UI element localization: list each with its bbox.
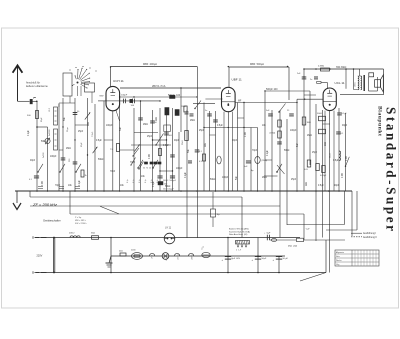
switch k1 (37, 171, 38, 172)
svg-text:Wechs.: Wechs. (336, 260, 342, 262)
resistor r6 (322, 166, 326, 173)
svg-text:50kΩ: 50kΩ (165, 186, 171, 188)
svg-text:Netz-Anschluss (Gl): Netz-Anschluss (Gl) (229, 233, 248, 236)
svg-text:25pF: 25pF (199, 130, 205, 132)
wire bus D (265, 90, 310, 92)
divider resistor (236, 241, 250, 245)
capacitor pad x75 (73, 112, 78, 114)
switch mid1 (137, 167, 138, 168)
capacitor el left (34, 175, 39, 177)
sub bus L1 (30, 196, 242, 198)
switch k3 (75, 171, 76, 172)
resistor mid2 (159, 149, 162, 156)
svg-text:0.1µF: 0.1µF (28, 130, 30, 136)
wire stub 176 (264, 175, 278, 177)
svg-text:220V: 220V (37, 255, 43, 258)
svg-text:30kΩ: 30kΩ (182, 140, 184, 145)
coil L2 (54, 129, 58, 150)
capacitor mid6 (157, 175, 162, 177)
svg-text:5nF: 5nF (236, 175, 238, 180)
svg-text:20pF: 20pF (41, 117, 43, 122)
svg-text:30pF: 30pF (232, 140, 238, 142)
svg-text:70pF: 70pF (55, 185, 61, 187)
svg-text:25pF: 25pF (312, 152, 318, 154)
terminal dashes left (38, 186, 43, 188)
svg-text:60kΩ: 60kΩ (330, 153, 332, 158)
wire stair a (287, 224, 345, 226)
resistor r3 (319, 129, 326, 134)
sub bus L3 (70, 213, 304, 215)
padder cap row (144, 162, 147, 164)
electrolytic 3 (276, 256, 282, 258)
electrolytic 1 (225, 256, 231, 258)
capacitor mid2 (164, 132, 169, 134)
svg-text:500pF 500µµF: 500pF 500µµF (163, 180, 177, 182)
wire top bus A1 (111, 66, 198, 68)
resistor r5 (316, 164, 320, 171)
speaker magnet (369, 73, 374, 77)
svg-text:100pF: 100pF (50, 156, 57, 158)
svg-text:1kΩ: 1kΩ (205, 143, 207, 147)
svg-text:Standard-Super: Standard-Super (384, 107, 399, 234)
heater line (111, 255, 285, 257)
capacitor m2d (268, 113, 273, 115)
svg-text:2MΩ: 2MΩ (66, 148, 71, 150)
switch k2 (59, 171, 60, 172)
svg-text:30 70 24 50: 30 70 24 50 (143, 168, 154, 170)
svg-text:2n: 2n (310, 79, 312, 81)
capacitor mid4 (170, 154, 175, 156)
pilot lamp (162, 253, 169, 260)
ground bus junctions (36, 190, 38, 192)
svg-text:MBF 500µA: MBF 500µA (250, 63, 264, 66)
svg-text:+ 5µF: + 5µF (264, 233, 271, 235)
electrolytic mid 8uF (211, 209, 216, 217)
svg-text:30pF: 30pF (174, 140, 180, 142)
svg-text:MW = 982 k: MW = 982 k (75, 220, 86, 222)
svg-text:KW = 2280 k: KW = 2280 k (75, 223, 87, 225)
svg-text:100pF: 100pF (121, 95, 128, 97)
svg-text:2MΩ: 2MΩ (143, 124, 148, 126)
power line top (35, 237, 300, 239)
resistor chain b (278, 131, 282, 138)
svg-text:0.3M: 0.3M (245, 132, 247, 137)
svg-text:50kΩ: 50kΩ (284, 150, 290, 152)
capacitor mid5 (195, 149, 200, 151)
heater hump 2 (175, 253, 180, 256)
dial lamp (164, 233, 175, 244)
wire UCL top bus (304, 68, 384, 70)
svg-text:1MΩ: 1MΩ (307, 122, 312, 124)
wire diag switch (277, 165, 285, 174)
speaker driver (375, 80, 381, 88)
svg-text:P = Sp.: P = Sp. (75, 217, 82, 219)
wire bus C (120, 96, 198, 98)
wire top bus A2 (229, 66, 289, 68)
wire UBF pin a (223, 112, 225, 191)
wire heater drop (110, 238, 112, 273)
svg-text:Ausführung I: Ausführung I (363, 232, 376, 235)
switch right (276, 171, 277, 172)
rotary wave-change switch (77, 82, 79, 84)
resistor r0 (321, 68, 330, 71)
wire bus 103 (59, 102, 75, 104)
svg-text:0.5µF: 0.5µF (318, 185, 324, 187)
wire stair b (326, 229, 357, 231)
svg-text:1kΩ: 1kΩ (156, 117, 158, 121)
svg-text:UCL 11: UCL 11 (335, 81, 345, 85)
svg-text:100pF: 100pF (222, 177, 229, 179)
svg-text:100pF: 100pF (290, 130, 297, 132)
IF transformer windings (165, 108, 169, 116)
capacitor m2c (246, 160, 251, 162)
padder block (158, 182, 163, 185)
svg-text:1kΩ: 1kΩ (88, 122, 90, 126)
svg-text:25pF: 25pF (81, 142, 83, 147)
svg-text:5nF: 5nF (120, 126, 122, 131)
tube UCH11 (106, 86, 120, 110)
svg-text:0.3MΩ: 0.3MΩ (318, 66, 324, 68)
svg-text:1kΩ: 1kΩ (306, 182, 308, 186)
wire horiz 127 mid (204, 127, 258, 129)
wire speaker right (383, 69, 385, 95)
legend line 2 (351, 236, 362, 238)
antenna (17, 66, 19, 101)
svg-text:5nF: 5nF (188, 148, 190, 153)
svg-text:100Ω: 100Ω (355, 82, 357, 87)
svg-text:0.5µF: 0.5µF (217, 125, 223, 127)
heater hump 3 (189, 253, 194, 256)
svg-text:0.3M: 0.3M (346, 156, 348, 161)
wire osc drop (288, 67, 290, 100)
svg-text:Ap.: Ap. (251, 169, 254, 172)
svg-text:Sammler Batt.2V (Gl.A): Sammler Batt.2V (Gl.A) (229, 230, 250, 233)
heater hump 1 (150, 253, 155, 256)
rotary switch ticks (70, 70, 71, 71)
capacitor mid3 (138, 117, 143, 119)
capacitor 100pF a (123, 99, 125, 104)
svg-text:2BV=1.7mA: 2BV=1.7mA (152, 85, 166, 88)
svg-text:50kΩ: 50kΩ (210, 179, 216, 181)
series cap power (266, 235, 268, 241)
grid stopper box UCL (317, 81, 321, 83)
wire UCH pin diag (116, 111, 120, 122)
fuse (202, 252, 210, 257)
svg-text:50 µF: 50 µF (283, 258, 289, 260)
ground bus (15, 190, 352, 192)
svg-text:2x2000: 2x2000 (49, 129, 51, 136)
oval comp (217, 156, 221, 164)
wire IF h2 (131, 144, 171, 146)
svg-text:70pF: 70pF (252, 150, 258, 152)
switch det sect (278, 111, 279, 112)
svg-text:UBF11: UBF11 (192, 255, 194, 260)
svg-text:4kΩ: 4kΩ (119, 251, 123, 253)
svg-text:04/12: 04/12 (69, 233, 75, 235)
svg-text:30pF: 30pF (342, 125, 348, 127)
svg-text:25pF: 25pF (147, 136, 153, 138)
svg-text:(1MΩ): (1MΩ) (270, 133, 276, 135)
wire UBF in (205, 98, 222, 100)
ground symbol main (16, 191, 18, 203)
svg-text:30pF: 30pF (30, 160, 36, 162)
resistor power in (92, 236, 99, 240)
speaker frame (368, 77, 370, 91)
IF box small (164, 125, 171, 132)
power terminal bottom (32, 271, 34, 274)
wire UCL pin b (333, 111, 335, 191)
svg-text:UCL11: UCL11 (166, 256, 168, 261)
svg-text:Geräteschalter: Geräteschalter (43, 219, 61, 223)
svg-text:100pF: 100pF (176, 168, 183, 170)
svg-text:Netz: Netz (336, 255, 340, 258)
svg-text:100pF: 100pF (106, 125, 113, 127)
svg-text:0.1µF: 0.1µF (79, 180, 81, 186)
switch IF diag (156, 134, 164, 146)
junction dots m2 (228, 127, 229, 128)
resistor chain a (278, 120, 282, 127)
capacitor mid1 (150, 120, 155, 122)
capacitor m2b (213, 119, 218, 121)
tube UCL11 (323, 88, 336, 111)
switch diag a (133, 148, 139, 156)
svg-text:5nF: 5nF (297, 142, 299, 147)
output socket (271, 238, 276, 241)
barretter (132, 253, 143, 260)
electrolytic 2 (255, 256, 261, 258)
switch osc sect (194, 108, 195, 109)
speaker cone (381, 75, 384, 92)
choke power (70, 236, 80, 238)
capacitor x63 (61, 157, 66, 159)
svg-text:50µF: 50µF (262, 258, 268, 260)
svg-text:0.1µF: 0.1µF (267, 150, 269, 156)
capacitor 100pF b (132, 99, 134, 104)
rotary switch frame (63, 73, 72, 96)
legend line 1 (351, 232, 362, 234)
valve table (335, 250, 379, 266)
wire diagonal L2-L3 (100, 206, 119, 214)
transformer primary (353, 69, 355, 90)
svg-text:MBF 200µA: MBF 200µA (143, 63, 157, 66)
coil L1 (54, 107, 58, 125)
switch diag c (139, 162, 144, 170)
svg-text:0.5µF: 0.5µF (96, 140, 102, 142)
wire elcap2 (257, 238, 259, 273)
wire IF h1 (134, 132, 158, 134)
svg-text:1k: 1k (85, 175, 87, 177)
svg-text:Ausführung II: Ausführung II (363, 236, 377, 239)
capacitor r2 (337, 112, 342, 114)
svg-text:70pF: 70pF (130, 162, 136, 164)
power terminal top (32, 236, 34, 239)
capacitor chain (277, 141, 282, 143)
svg-text:50kΩ: 50kΩ (41, 141, 47, 143)
switch diag b (131, 158, 136, 166)
svg-text:2MΩ: 2MΩ (190, 120, 195, 122)
svg-text:70pF: 70pF (110, 171, 116, 173)
trimmer x87 (85, 112, 90, 119)
wire UBF pin b (232, 112, 234, 191)
capacitor mid7 (170, 175, 175, 177)
resistor heater (120, 253, 126, 256)
wire UBF plate drop (228, 67, 230, 87)
sub bus L2 (30, 205, 280, 207)
svg-text:0.1µF: 0.1µF (185, 172, 187, 178)
svg-text:50kΩ: 50kΩ (98, 159, 104, 161)
svg-text:UCH11: UCH11 (178, 254, 180, 260)
wire UCL pin a (324, 111, 326, 191)
svg-text:3x500: 3x500 (43, 152, 45, 158)
svg-text:0.3M: 0.3M (149, 154, 151, 159)
svg-text:2MΩ: 2MΩ (262, 177, 267, 179)
svg-text:2 1,9: 2 1,9 (236, 250, 242, 252)
wire UCH plate drop (110, 67, 112, 87)
svg-text:(8Ω) (4Ω): (8Ω) (4Ω) (288, 246, 297, 248)
junction r (303, 68, 305, 70)
svg-text:30pF: 30pF (334, 185, 340, 187)
trimmer osc (45, 138, 50, 143)
rotary frame stubs (69, 96, 71, 103)
resistor mid1 (117, 144, 120, 152)
transformer secondary (361, 76, 362, 90)
svg-text:5nF: 5nF (64, 116, 66, 121)
svg-text:MF: MF (238, 100, 242, 102)
svg-text:5n: 5n (205, 110, 207, 112)
wire speaker return (340, 94, 384, 96)
power line bottom (36, 272, 326, 274)
ground heater (109, 256, 111, 263)
resistor ant series (36, 111, 39, 119)
svg-text:25pF: 25pF (291, 179, 297, 181)
resistor mid3 (185, 131, 189, 141)
capacitor m2e (289, 113, 294, 115)
svg-text:NW 30kΩ: NW 30kΩ (336, 66, 347, 69)
wire power cross (52, 238, 54, 273)
svg-text:Allgemein: Allgemein (336, 251, 344, 254)
capacitor r3 (336, 131, 341, 133)
wire elcap mid (212, 192, 214, 209)
trimmer x95 (93, 147, 98, 153)
capacitor r0 (302, 76, 307, 78)
svg-text:8µF 60V: 8µF 60V (232, 258, 241, 260)
capacitor x75b (73, 161, 78, 163)
svg-text:7.5kΩ: 7.5kΩ (92, 131, 94, 137)
wire horiz 171 stub (160, 170, 173, 172)
svg-text:0.5µF: 0.5µF (163, 145, 169, 147)
capacitor m2a (207, 113, 212, 115)
svg-text:äußere Luftantenne: äußere Luftantenne (26, 85, 48, 88)
resistor IF (184, 106, 187, 112)
transformer core (363, 75, 365, 91)
resistor r1 (302, 117, 306, 125)
wire down right (325, 240, 327, 273)
wire elcap1 (227, 238, 229, 273)
vertical wires field (36, 101, 38, 191)
wire speaker output (270, 239, 345, 241)
svg-text:Blaupunkt: Blaupunkt (377, 106, 383, 136)
svg-text:250pF: 250pF (181, 106, 187, 108)
svg-text:~2µF: ~2µF (305, 229, 310, 231)
svg-text:25pF: 25pF (78, 131, 84, 133)
switch af sect (345, 166, 346, 167)
svg-text:0.1µF: 0.1µF (342, 113, 348, 115)
wire UCH out (120, 100, 160, 102)
wire horiz 140 stub (153, 139, 167, 141)
wire bus B (120, 87, 221, 89)
wire UCH grid in (98, 100, 106, 102)
capacitor r1 (314, 76, 318, 78)
capacitor block (130, 99, 133, 102)
svg-text:Batterie 90V (B) (A90): Batterie 90V (B) (A90) (229, 228, 249, 231)
svg-text:UY 11: UY 11 (165, 228, 172, 230)
resistor left low (81, 170, 84, 177)
resistor m2b oval (255, 157, 260, 164)
svg-text:1kΩ: 1kΩ (325, 142, 327, 146)
wire horiz 127 left (37, 126, 48, 128)
IF core blob (170, 95, 176, 98)
switch mid2 (152, 167, 153, 168)
wire diag bottom (300, 273, 326, 282)
svg-text:500pF 100: 500pF 100 (266, 88, 278, 91)
svg-text:0.5µF: 0.5µF (333, 160, 339, 162)
svg-text:500 100µµF: 500 100µµF (163, 189, 175, 191)
wire elcap3 (278, 256, 280, 273)
svg-text:UCH 11: UCH 11 (113, 79, 124, 83)
svg-text:50kΩ: 50kΩ (317, 113, 322, 115)
connector stubs (104, 139, 113, 141)
resistor r4 (307, 160, 311, 167)
trimmer mid (134, 144, 139, 151)
svg-text:0.05µF: 0.05µF (320, 175, 327, 177)
resistor r2 (319, 116, 326, 121)
antenna socket (30, 99, 32, 104)
wire antenna to socket (18, 100, 30, 102)
junction dots extra (110, 66, 111, 67)
resistor m2a (203, 154, 206, 161)
svg-text:UBF 11: UBF 11 (232, 78, 243, 82)
wire UBF out (235, 102, 297, 104)
svg-text:3kΩ: 3kΩ (91, 233, 95, 235)
svg-text:0.3M: 0.3M (42, 181, 44, 186)
tube UBF11 (222, 87, 236, 111)
svg-text:UY11: UY11 (152, 255, 154, 259)
svg-text:0.3M: 0.3M (342, 173, 344, 178)
svg-text:0.1µF: 0.1µF (153, 181, 155, 187)
wire drop x242 (241, 197, 243, 238)
svg-text:Gl.g: Gl.g (336, 264, 339, 266)
choke r (339, 151, 341, 161)
svg-text:2MΩ: 2MΩ (307, 135, 312, 137)
